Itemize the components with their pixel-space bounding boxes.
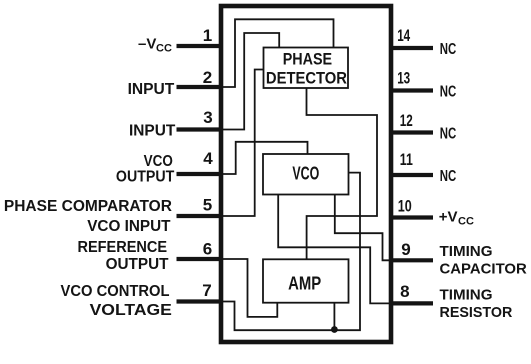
AMP block U1c <box>263 259 349 302</box>
svg-text:10: 10 <box>398 196 412 215</box>
IC body U1 (14-pin DIP outline) <box>221 6 391 342</box>
svg-text:8: 8 <box>400 282 409 301</box>
wire pin4 to VCO top <box>221 142 308 174</box>
wire phase detector bottom to AMP top (zigzag) <box>307 88 378 259</box>
svg-text:NC: NC <box>440 41 457 58</box>
wire pin2 to phase detector top <box>221 19 334 87</box>
svg-text:13: 13 <box>397 69 410 88</box>
svg-text:REFERENCE: REFERENCE <box>78 239 168 256</box>
pin 10 stub <box>391 215 433 219</box>
pin 8 stub <box>391 301 433 305</box>
svg-text:OUTPUT: OUTPUT <box>116 168 175 185</box>
svg-text:TIMING: TIMING <box>440 287 493 304</box>
svg-text:5: 5 <box>203 196 212 215</box>
svg-text:3: 3 <box>203 108 212 127</box>
pin 14 stub <box>391 46 433 50</box>
svg-text:AMP: AMP <box>288 273 321 293</box>
svg-text:PHASE: PHASE <box>283 50 332 69</box>
svg-text:–V: –V <box>138 36 156 53</box>
svg-text:6: 6 <box>203 240 212 259</box>
pin 12 stub <box>391 130 433 134</box>
VCO block U1b <box>263 154 349 195</box>
pin 6 stub <box>177 257 222 261</box>
pin 7 stub <box>177 299 222 303</box>
svg-text:VCO INPUT: VCO INPUT <box>87 218 171 235</box>
svg-text:CC: CC <box>156 43 172 55</box>
wire pin7 along bottom up to VCO right edge <box>221 173 360 331</box>
wire pin3 to phase detector top <box>221 33 279 130</box>
pin 1 stub <box>177 44 222 48</box>
pin 13 stub <box>391 88 433 92</box>
wire AMP bottom to junction dot <box>333 303 335 331</box>
svg-text:+V: +V <box>439 209 458 226</box>
svg-text:INPUT: INPUT <box>128 81 175 98</box>
wire pin6 to AMP bottom <box>221 259 277 317</box>
svg-text:CC: CC <box>458 216 474 228</box>
svg-text:NC: NC <box>440 168 457 185</box>
svg-text:TIMING: TIMING <box>440 243 493 260</box>
pin 5 stub <box>177 214 222 218</box>
phase detector block U1a <box>264 48 349 89</box>
pin 2 stub <box>177 85 222 89</box>
svg-text:PHASE COMPARATOR: PHASE COMPARATOR <box>4 198 172 215</box>
wire VCO bottom to pin 9 (timing capacitor) <box>335 195 391 261</box>
svg-text:2: 2 <box>203 68 212 87</box>
svg-text:1: 1 <box>203 26 212 45</box>
svg-text:DETECTOR: DETECTOR <box>266 68 347 87</box>
pin 9 stub <box>391 258 433 262</box>
svg-text:RESISTOR: RESISTOR <box>440 304 513 321</box>
svg-text:11: 11 <box>400 150 413 169</box>
svg-text:VCO: VCO <box>292 163 319 183</box>
svg-text:7: 7 <box>202 281 211 300</box>
pin 4 stub <box>177 172 222 176</box>
svg-text:NC: NC <box>440 126 457 143</box>
pin 11 stub <box>391 173 433 177</box>
wire VCO bottom to pin 8 (timing resistor) <box>278 195 391 304</box>
svg-text:VCO CONTROL: VCO CONTROL <box>61 283 170 300</box>
svg-text:4: 4 <box>203 149 213 168</box>
svg-text:OUTPUT: OUTPUT <box>106 256 169 273</box>
svg-text:14: 14 <box>397 26 410 45</box>
pin 3 stub <box>177 127 222 131</box>
svg-text:CAPACITOR: CAPACITOR <box>440 260 527 277</box>
wire pin5 to phase detector left <box>221 70 264 217</box>
junction dot (pin7 / AMP / VCO control node) <box>331 326 338 333</box>
svg-text:NC: NC <box>440 84 457 101</box>
svg-text:9: 9 <box>401 240 410 259</box>
svg-text:VOLTAGE: VOLTAGE <box>90 302 173 319</box>
svg-text:12: 12 <box>400 111 413 130</box>
svg-text:INPUT: INPUT <box>129 123 176 140</box>
